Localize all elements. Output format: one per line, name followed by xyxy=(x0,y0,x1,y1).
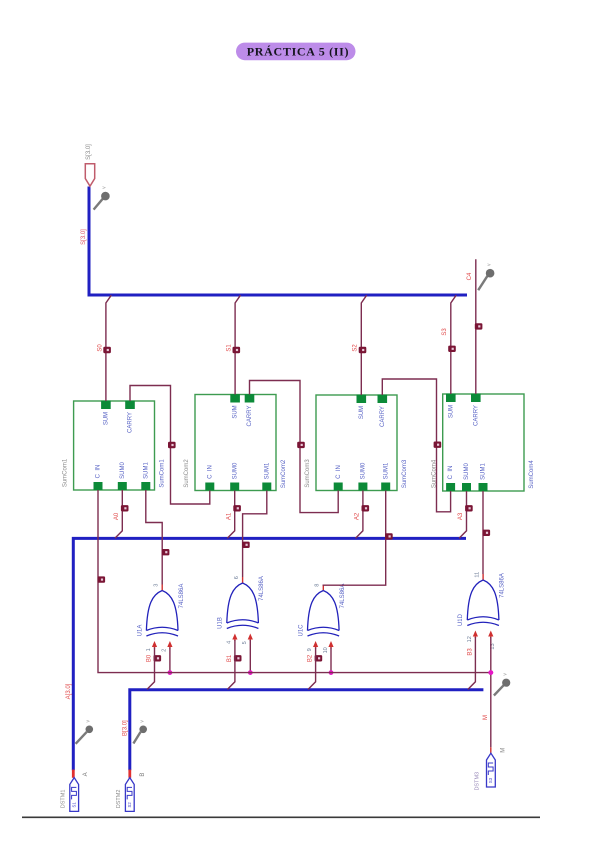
svg-text:10: 10 xyxy=(323,647,329,653)
svg-text:S3: S3 xyxy=(442,328,448,336)
svg-text:12: 12 xyxy=(467,636,473,642)
svg-text:A3: A3 xyxy=(458,512,464,520)
svg-text:U1D: U1D xyxy=(458,613,464,626)
svg-text:SumCom2: SumCom2 xyxy=(281,459,287,488)
svg-text:2: 2 xyxy=(162,649,168,652)
svg-text:DSTM2: DSTM2 xyxy=(116,790,122,809)
svg-text:B3: B3 xyxy=(467,648,473,656)
svg-text:C4: C4 xyxy=(467,272,473,280)
svg-text:S0: S0 xyxy=(97,344,103,352)
svg-text:B[3.0]: B[3.0] xyxy=(123,720,129,736)
svg-text:8: 8 xyxy=(315,584,321,587)
svg-text:6: 6 xyxy=(234,576,240,579)
svg-text:B2: B2 xyxy=(308,654,314,662)
svg-text:A2: A2 xyxy=(354,512,360,520)
svg-text:SUM1: SUM1 xyxy=(481,463,487,480)
svg-text:B: B xyxy=(140,773,146,777)
svg-text:S1: S1 xyxy=(71,802,76,808)
svg-text:S2: S2 xyxy=(353,344,359,352)
svg-text:5: 5 xyxy=(242,641,248,644)
svg-text:SUM0: SUM0 xyxy=(360,462,366,479)
svg-text:SUM1: SUM1 xyxy=(383,462,389,479)
svg-text:S2: S2 xyxy=(127,802,132,808)
svg-text:SumCom2: SumCom2 xyxy=(184,459,190,488)
svg-text:C IN: C IN xyxy=(336,465,342,479)
svg-text:SumCom3: SumCom3 xyxy=(402,459,408,488)
svg-text:PRÁCTICA 5 (II): PRÁCTICA 5 (II) xyxy=(247,45,350,59)
svg-text:S3: S3 xyxy=(488,777,493,783)
svg-text:9: 9 xyxy=(307,648,313,651)
svg-text:SumCom4: SumCom4 xyxy=(529,460,535,489)
svg-text:SumCom1: SumCom1 xyxy=(160,459,166,488)
svg-text:1: 1 xyxy=(146,648,152,651)
svg-text:C IN: C IN xyxy=(207,465,213,479)
svg-text:C IN: C IN xyxy=(448,466,454,480)
svg-text:3: 3 xyxy=(153,584,159,587)
svg-text:CARRY: CARRY xyxy=(128,412,134,433)
svg-text:U1A: U1A xyxy=(137,625,143,637)
svg-text:11: 11 xyxy=(474,572,480,578)
svg-text:SUM0: SUM0 xyxy=(464,463,470,480)
svg-text:S1: S1 xyxy=(226,344,232,352)
svg-text:A1: A1 xyxy=(226,512,232,520)
svg-text:CARRY: CARRY xyxy=(380,406,386,427)
svg-text:U1C: U1C xyxy=(298,624,304,637)
svg-text:CARRY: CARRY xyxy=(247,406,253,427)
svg-text:SumCom1: SumCom1 xyxy=(62,458,68,487)
svg-text:C IN: C IN xyxy=(96,465,102,479)
svg-text:SUM: SUM xyxy=(233,405,239,418)
svg-text:B0: B0 xyxy=(147,654,153,662)
svg-text:74LS86A: 74LS86A xyxy=(179,584,185,609)
svg-text:SUM: SUM xyxy=(103,412,109,425)
svg-text:74LS86A: 74LS86A xyxy=(340,584,346,609)
svg-text:74LS86A: 74LS86A xyxy=(259,576,265,601)
svg-text:SumCom3: SumCom3 xyxy=(305,459,311,488)
svg-text:M: M xyxy=(483,715,489,720)
svg-text:A[3.0]: A[3.0] xyxy=(66,683,72,699)
svg-text:B1: B1 xyxy=(227,654,233,662)
svg-text:74LS86A: 74LS86A xyxy=(500,573,506,598)
svg-text:S[3.0]: S[3.0] xyxy=(81,229,87,245)
svg-text:DSTM3: DSTM3 xyxy=(475,772,481,791)
svg-text:SUM: SUM xyxy=(359,406,365,419)
svg-text:4: 4 xyxy=(226,641,232,644)
svg-text:SUM: SUM xyxy=(448,405,454,418)
svg-text:S[3.0]: S[3.0] xyxy=(86,144,92,160)
svg-text:SUM1: SUM1 xyxy=(143,462,149,479)
svg-text:DSTM1: DSTM1 xyxy=(60,790,66,809)
svg-text:SUM1: SUM1 xyxy=(264,462,270,479)
svg-text:SUM0: SUM0 xyxy=(232,462,238,479)
svg-text:SUM0: SUM0 xyxy=(120,462,126,479)
svg-text:U1B: U1B xyxy=(218,617,224,629)
svg-text:CARRY: CARRY xyxy=(473,405,479,426)
svg-text:A0: A0 xyxy=(114,512,120,520)
svg-text:A: A xyxy=(83,772,89,776)
svg-text:M: M xyxy=(501,748,507,753)
